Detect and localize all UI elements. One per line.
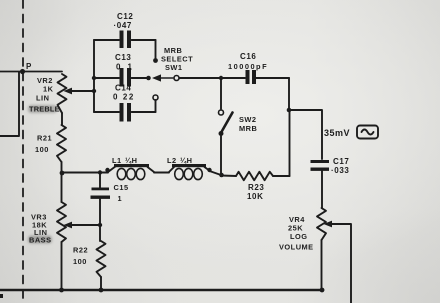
shield box (cut off at left edge)	[0, 72, 19, 136]
wire SW2 bottom to R23 row	[220, 136, 222, 175]
capacitor C14 0.22	[94, 111, 119, 113]
svg-text:LIN: LIN	[36, 94, 49, 103]
capacitor C16 10000pF	[246, 70, 250, 84]
svg-text:10000pF: 10000pF	[228, 62, 268, 71]
dashed phase line through node P	[22, 0, 24, 303]
potentiometer VR3 18K LIN BASS	[61, 173, 63, 202]
svg-text:P: P	[26, 62, 32, 71]
capacitor C12 .047	[94, 39, 119, 41]
svg-text:¼H: ¼H	[180, 156, 193, 165]
svg-text:100: 100	[73, 257, 87, 266]
potentiometer VR2 1K LIN TREBLE	[58, 74, 67, 113]
svg-text:·033: ·033	[331, 166, 349, 175]
wire junction to output column	[289, 110, 322, 159]
wire main line to C16	[221, 77, 245, 79]
svg-text:·047: ·047	[114, 21, 132, 30]
svg-text:10K: 10K	[247, 192, 263, 201]
VR2 wiper arrow	[64, 88, 73, 95]
svg-text:R21: R21	[37, 134, 52, 143]
svg-text:SW2: SW2	[239, 115, 257, 124]
svg-text:R22: R22	[73, 246, 88, 255]
svg-text:MRB: MRB	[239, 124, 257, 133]
switch SW1 contact for C12	[155, 40, 157, 58]
VR3 wiper arrow	[64, 222, 73, 229]
node junction C16/SW2 branch	[287, 108, 292, 113]
wire R23 right up to junction	[289, 110, 291, 176]
edge mark bottom left	[0, 294, 3, 298]
svg-text:L2: L2	[167, 156, 177, 165]
capacitor C13 0.1	[94, 77, 119, 79]
svg-text:L1: L1	[112, 156, 122, 165]
resistor R21 100	[57, 125, 66, 162]
wire L1 to L2	[154, 172, 169, 174]
capacitor C17 .033	[311, 160, 330, 163]
potentiometer VR4 25K LOG VOLUME	[317, 208, 326, 240]
inductor L2 1/4H	[169, 166, 175, 172]
svg-text:C14: C14	[115, 84, 131, 93]
svg-text:C13: C13	[115, 53, 131, 62]
capacitor C15	[99, 173, 101, 189]
wire C17 to VR4	[321, 171, 323, 208]
VR4 wiper arrow to output	[324, 221, 333, 228]
svg-text:1: 1	[118, 194, 123, 203]
svg-text:SW1: SW1	[165, 63, 183, 72]
svg-text:0 1: 0 1	[116, 63, 134, 72]
svg-text:1K: 1K	[43, 85, 54, 94]
svg-text:C17: C17	[333, 157, 349, 166]
svg-text:C16: C16	[240, 52, 256, 61]
svg-text:100: 100	[35, 145, 49, 154]
svg-text:35mV: 35mV	[324, 128, 350, 138]
inductor L1 1/4H	[108, 166, 116, 172]
node P	[20, 69, 25, 74]
AC source symbol	[357, 126, 378, 139]
svg-text:TREBLE: TREBLE	[29, 105, 60, 114]
bottom bus wire	[0, 289, 323, 292]
switch SW2 MRB	[220, 78, 222, 109]
switch SW1 wiper arrow	[146, 76, 151, 81]
svg-text:R23: R23	[248, 183, 264, 192]
wire C16 down to junction	[288, 78, 290, 110]
switch SW1 contact for C14	[155, 100, 157, 112]
wire input at node P	[0, 71, 62, 73]
switch SW1 selected contact on main line	[174, 76, 179, 81]
svg-text:C15: C15	[114, 183, 129, 192]
svg-text:VOLUME: VOLUME	[279, 243, 314, 252]
svg-text:C12: C12	[117, 12, 133, 21]
resistor R22 100	[97, 241, 106, 277]
node main line junction to SW2	[219, 76, 223, 80]
svg-text:LOG: LOG	[290, 232, 308, 241]
wire L2 to SW2/R23 junction	[207, 168, 211, 172]
svg-text:¼H: ¼H	[125, 156, 138, 165]
capacitor bank left bus wire	[93, 40, 95, 112]
wire mid bus from R21 to inductors	[60, 171, 65, 176]
svg-text:BASS: BASS	[29, 236, 52, 245]
svg-text:0 22: 0 22	[113, 93, 135, 102]
resistor R23 10K	[221, 175, 236, 178]
